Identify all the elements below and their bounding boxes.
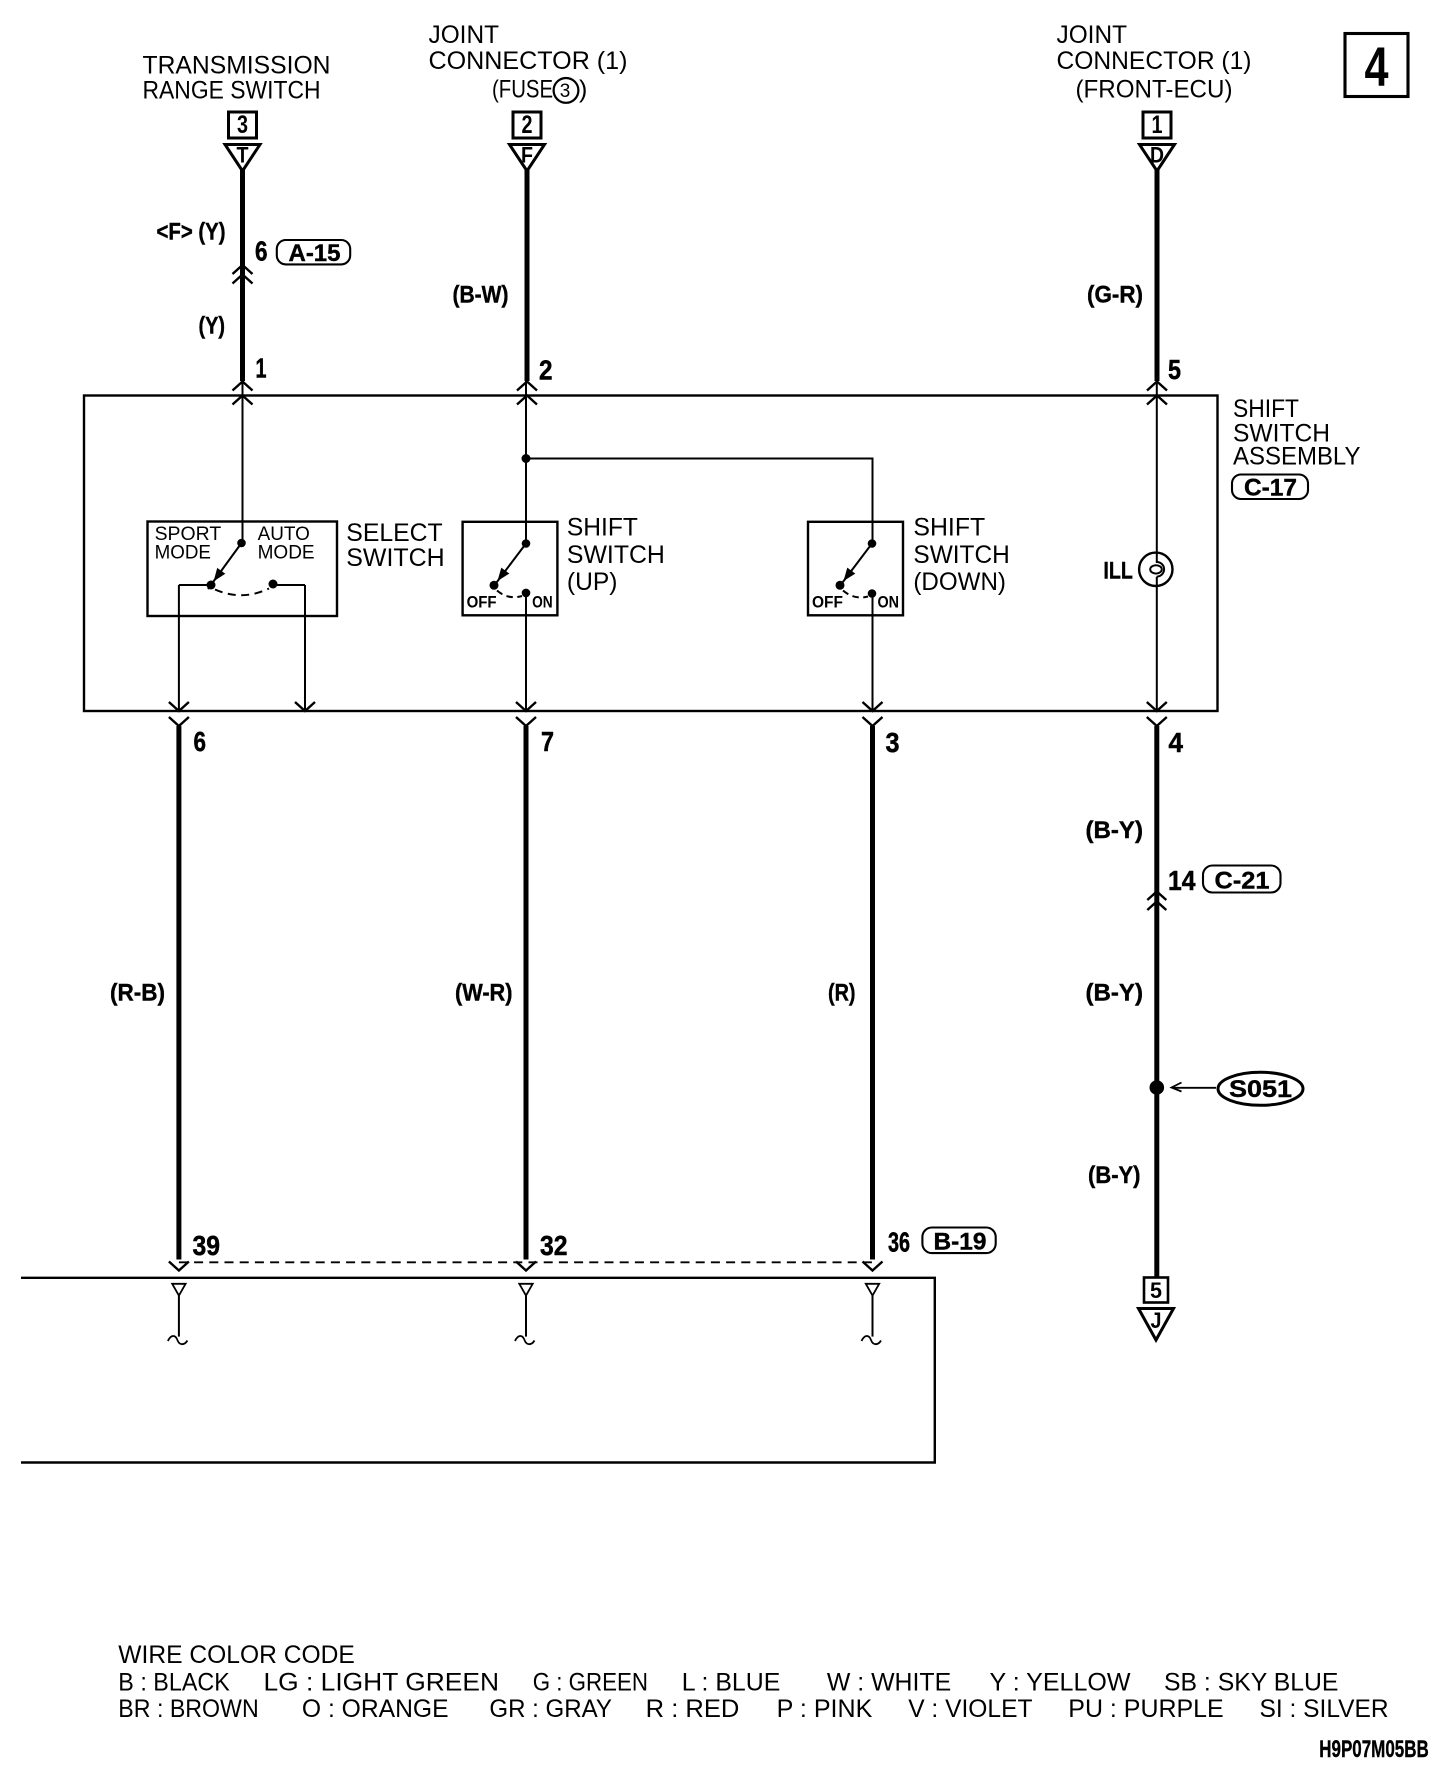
svg-text:G : GREEN: G : GREEN bbox=[533, 1669, 648, 1697]
svg-text:JOINT: JOINT bbox=[1057, 21, 1128, 49]
wire label <F> (Y) bbox=[157, 219, 226, 246]
wire: pin5 to illumination lamp bbox=[1156, 381, 1158, 554]
svg-text:5: 5 bbox=[1168, 354, 1181, 385]
svg-text:JOINT: JOINT bbox=[429, 21, 500, 49]
wire label (B-Y) upper bbox=[1086, 817, 1144, 844]
wire label (Y) bbox=[199, 313, 226, 340]
svg-text:3: 3 bbox=[237, 111, 248, 139]
svg-text:SWITCH: SWITCH bbox=[567, 541, 665, 569]
document number bbox=[1319, 1736, 1428, 1763]
continuation symbol below pin 39 bbox=[168, 1284, 188, 1344]
svg-text:4: 4 bbox=[1169, 727, 1184, 758]
svg-text:6: 6 bbox=[255, 236, 268, 267]
wire (R-B) pin6 to pin39 bbox=[176, 726, 181, 1260]
continuation symbol below pin 32 bbox=[515, 1284, 535, 1344]
svg-text:H9P07M05BB: H9P07M05BB bbox=[1319, 1736, 1428, 1763]
wire: lamp to pin 4 bbox=[1156, 577, 1158, 711]
label: shift switch (down) bbox=[913, 514, 1009, 597]
wire (Y) from connector 3 bbox=[240, 170, 245, 381]
shift switch assembly box C-17 bbox=[84, 396, 1218, 712]
svg-text:SHIFT: SHIFT bbox=[567, 514, 638, 542]
pin 7 exit arrows bbox=[516, 702, 554, 757]
wire (B-Y) pin4 to connector 5 bbox=[1154, 726, 1159, 1278]
svg-text:2: 2 bbox=[522, 111, 533, 139]
svg-text:ILL: ILL bbox=[1103, 558, 1133, 585]
in-line connector 14 C-21 bbox=[1147, 865, 1280, 910]
wire label (B-W) bbox=[453, 282, 509, 309]
wire label (B-Y) lower bbox=[1088, 1162, 1141, 1189]
wire label (B-Y) middle bbox=[1086, 980, 1144, 1007]
svg-text:(R): (R) bbox=[828, 980, 856, 1007]
pin 6 exit arrows bbox=[169, 702, 206, 757]
wire: pin1 to select switch common bbox=[242, 381, 244, 543]
svg-text:W : WHITE: W : WHITE bbox=[827, 1669, 951, 1697]
page number 4 bbox=[1345, 34, 1408, 99]
pin 39 bbox=[169, 1230, 220, 1271]
lamp ILL bbox=[1103, 553, 1172, 586]
svg-text:(UP): (UP) bbox=[567, 568, 618, 596]
svg-text:C-17: C-17 bbox=[1244, 475, 1297, 502]
svg-text:(R-B): (R-B) bbox=[110, 980, 165, 1007]
continuation symbol below pin 36 bbox=[862, 1284, 882, 1344]
svg-text:LG : LIGHT GREEN: LG : LIGHT GREEN bbox=[264, 1669, 500, 1697]
svg-text:V : VIOLET: V : VIOLET bbox=[908, 1695, 1032, 1723]
pin 36 B-19 bbox=[863, 1227, 996, 1271]
svg-text:PU : PURPLE: PU : PURPLE bbox=[1068, 1695, 1223, 1723]
svg-text:SHIFT: SHIFT bbox=[913, 514, 985, 542]
wire: sport mode contact to pin 6 bbox=[178, 585, 180, 711]
wire label (W-R) bbox=[455, 980, 513, 1007]
svg-text:T: T bbox=[237, 143, 249, 168]
svg-text:(B-W): (B-W) bbox=[453, 282, 509, 309]
wire label (G-R) bbox=[1087, 282, 1143, 309]
svg-text:6: 6 bbox=[194, 726, 207, 757]
svg-text:(FUSE: (FUSE bbox=[492, 76, 553, 104]
legend: wire color code bbox=[118, 1641, 1388, 1723]
svg-text:SB : SKY BLUE: SB : SKY BLUE bbox=[1164, 1669, 1338, 1697]
svg-text:2: 2 bbox=[539, 355, 553, 386]
label: joint connector (1) (fuse 3) bbox=[429, 21, 628, 104]
wire: auto mode contact to box edge bbox=[304, 585, 306, 711]
svg-text:WIRE COLOR CODE: WIRE COLOR CODE bbox=[118, 1641, 354, 1669]
pin 2 entry arrows bbox=[517, 355, 553, 405]
svg-text:J: J bbox=[1151, 1308, 1162, 1333]
svg-text:B-19: B-19 bbox=[934, 1229, 987, 1256]
pin 1 entry arrows bbox=[233, 353, 267, 405]
connector 1 symbol (harness D) bbox=[1140, 111, 1175, 171]
svg-text:L : BLUE: L : BLUE bbox=[682, 1669, 781, 1697]
svg-text:(B-Y): (B-Y) bbox=[1086, 980, 1144, 1007]
label: shift switch assembly C-17 bbox=[1232, 395, 1361, 502]
shift switch (up) SW2 bbox=[463, 522, 558, 616]
svg-text:36: 36 bbox=[888, 1227, 910, 1258]
svg-text:32: 32 bbox=[540, 1230, 568, 1261]
svg-text:P : PINK: P : PINK bbox=[777, 1695, 873, 1723]
connector 3 symbol (harness T) bbox=[225, 111, 260, 171]
svg-text:F: F bbox=[521, 143, 533, 168]
wire: up switch ON contact to pin 7 bbox=[525, 593, 527, 711]
svg-text:CONNECTOR (1): CONNECTOR (1) bbox=[1057, 47, 1252, 75]
svg-text:7: 7 bbox=[541, 726, 554, 757]
wire label (R) bbox=[828, 980, 856, 1007]
svg-text:S051: S051 bbox=[1229, 1076, 1292, 1103]
svg-text:<F> (Y): <F> (Y) bbox=[157, 219, 226, 246]
svg-text:14: 14 bbox=[1168, 865, 1196, 896]
svg-text:A-15: A-15 bbox=[289, 240, 341, 267]
svg-text:1: 1 bbox=[1152, 111, 1163, 139]
svg-text:SI : SILVER: SI : SILVER bbox=[1260, 1695, 1389, 1723]
svg-text:ON: ON bbox=[532, 593, 553, 612]
svg-text:3: 3 bbox=[560, 81, 571, 102]
svg-text:SWITCH: SWITCH bbox=[346, 544, 444, 572]
svg-text:(B-Y): (B-Y) bbox=[1088, 1162, 1141, 1189]
connector 2 symbol (harness F) bbox=[510, 111, 545, 171]
label: select switch bbox=[346, 519, 444, 572]
svg-text:R : RED: R : RED bbox=[646, 1695, 740, 1723]
svg-text:4: 4 bbox=[1365, 35, 1389, 98]
svg-text:(FRONT-ECU): (FRONT-ECU) bbox=[1076, 76, 1233, 104]
svg-text:RANGE SWITCH: RANGE SWITCH bbox=[143, 77, 321, 105]
svg-text:MODE: MODE bbox=[258, 543, 315, 564]
svg-text:OFF: OFF bbox=[812, 593, 843, 612]
wire: jumper to shift switch down bbox=[526, 459, 873, 544]
svg-text:O : ORANGE: O : ORANGE bbox=[302, 1695, 449, 1723]
wire (W-R) pin7 to pin32 bbox=[524, 726, 529, 1260]
svg-text:5: 5 bbox=[1150, 1278, 1162, 1303]
pin 5 entry arrows bbox=[1147, 354, 1181, 405]
label: joint connector (1) (front-ecu) bbox=[1057, 21, 1252, 104]
wire (B-W) from connector 2 bbox=[525, 170, 530, 381]
svg-text:C-21: C-21 bbox=[1215, 868, 1270, 895]
pin 3 exit arrows bbox=[863, 702, 900, 758]
wire label (R-B) bbox=[110, 980, 165, 1007]
svg-text:3: 3 bbox=[886, 727, 900, 758]
label: shift switch (up) bbox=[567, 514, 665, 597]
svg-text:CONNECTOR (1): CONNECTOR (1) bbox=[429, 47, 628, 75]
svg-text:39: 39 bbox=[193, 1230, 221, 1261]
svg-text:TRANSMISSION: TRANSMISSION bbox=[143, 52, 331, 80]
shift switch (down) SW3 bbox=[808, 522, 903, 616]
svg-text:(W-R): (W-R) bbox=[455, 980, 513, 1007]
svg-text:MODE: MODE bbox=[155, 543, 211, 564]
svg-text:GR : GRAY: GR : GRAY bbox=[489, 1695, 612, 1723]
svg-text:ON: ON bbox=[878, 593, 900, 612]
svg-text:BR : BROWN: BR : BROWN bbox=[118, 1695, 258, 1723]
unnumbered exit arrow (auto mode) bbox=[295, 702, 315, 711]
in-line connector 6 A-15 bbox=[233, 236, 351, 284]
svg-text:D: D bbox=[1150, 143, 1164, 168]
svg-text:OFF: OFF bbox=[467, 593, 497, 612]
wire: pin2 to shift switch up common bbox=[525, 381, 527, 544]
wire: down switch ON contact to pin 3 bbox=[872, 594, 874, 712]
svg-text:(Y): (Y) bbox=[199, 313, 226, 340]
node: junction of pin2 wire and jumper bbox=[522, 454, 531, 463]
dashed connector edge line bbox=[179, 1261, 873, 1263]
select switch SW1 bbox=[148, 522, 338, 617]
svg-text:Y : YELLOW: Y : YELLOW bbox=[990, 1669, 1131, 1697]
svg-text:(B-Y): (B-Y) bbox=[1086, 817, 1144, 844]
svg-text:1: 1 bbox=[256, 353, 267, 384]
pin 32 bbox=[516, 1230, 568, 1271]
svg-text:ASSEMBLY: ASSEMBLY bbox=[1233, 443, 1361, 471]
label: transmission range switch bbox=[143, 52, 331, 105]
splice S051 bbox=[1150, 1072, 1304, 1105]
svg-text:): ) bbox=[579, 76, 587, 104]
pin 4 exit arrows bbox=[1147, 702, 1184, 758]
wire (G-R) from connector 1 bbox=[1155, 170, 1160, 381]
svg-text:(G-R): (G-R) bbox=[1087, 282, 1143, 309]
connector 5 symbol (harness J) bbox=[1139, 1278, 1174, 1341]
svg-text:B : BLACK: B : BLACK bbox=[118, 1669, 230, 1697]
wire (R) pin3 to pin36 bbox=[870, 726, 875, 1260]
svg-text:(DOWN): (DOWN) bbox=[913, 568, 1006, 596]
svg-text:SWITCH: SWITCH bbox=[913, 541, 1009, 569]
svg-text:SELECT: SELECT bbox=[346, 519, 442, 547]
bottom ecu box bbox=[21, 1278, 935, 1463]
